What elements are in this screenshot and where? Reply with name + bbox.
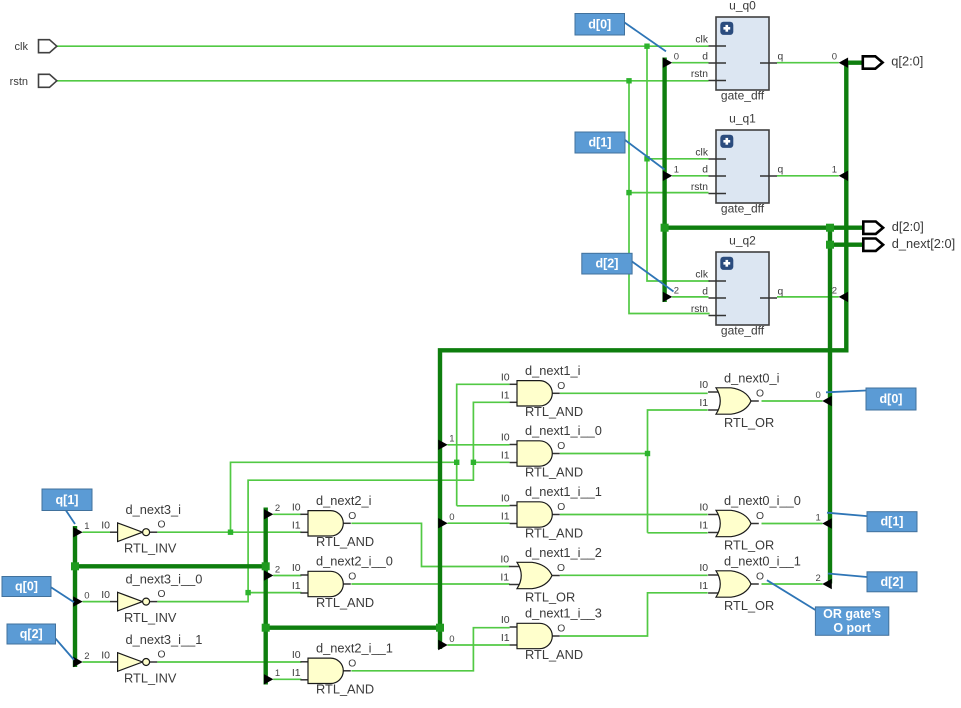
svg-text:d[2]: d[2]	[595, 257, 618, 271]
svg-text:q: q	[778, 165, 784, 176]
svg-text:0: 0	[816, 390, 821, 401]
svg-text:0: 0	[674, 52, 679, 63]
svg-text:O: O	[348, 511, 356, 522]
svg-text:d[0]: d[0]	[880, 392, 903, 406]
svg-text:I1: I1	[501, 511, 510, 523]
svg-text:I0: I0	[699, 562, 708, 574]
svg-text:RTL_AND: RTL_AND	[316, 534, 374, 549]
svg-text:RTL_OR: RTL_OR	[724, 537, 774, 552]
svg-text:RTL_OR: RTL_OR	[525, 589, 575, 604]
svg-text:O: O	[348, 572, 356, 583]
svg-text:gate_dff: gate_dff	[721, 323, 765, 337]
svg-text:d[1]: d[1]	[589, 136, 612, 150]
svg-text:d: d	[702, 52, 708, 63]
svg-text:1: 1	[449, 434, 454, 445]
svg-text:I0: I0	[101, 520, 110, 532]
svg-text:OR gate’s: OR gate’s	[823, 607, 881, 621]
svg-text:I1: I1	[292, 580, 301, 592]
svg-text:I1: I1	[292, 667, 301, 679]
svg-text:I1: I1	[699, 580, 708, 592]
svg-text:d_next0_i__0: d_next0_i__0	[724, 493, 801, 508]
svg-text:rstn: rstn	[691, 304, 708, 315]
svg-text:I1: I1	[699, 520, 708, 532]
svg-text:0: 0	[832, 52, 837, 63]
svg-text:RTL_AND: RTL_AND	[316, 682, 374, 697]
svg-text:d: d	[702, 165, 708, 176]
svg-text:0: 0	[449, 634, 454, 645]
svg-text:rstn: rstn	[691, 69, 708, 80]
svg-text:RTL_AND: RTL_AND	[525, 647, 583, 662]
svg-text:clk: clk	[15, 41, 29, 53]
svg-text:d_next2_i: d_next2_i	[316, 493, 372, 508]
svg-text:RTL_OR: RTL_OR	[724, 598, 774, 613]
svg-text:I0: I0	[292, 501, 301, 513]
svg-text:O: O	[157, 589, 165, 600]
svg-text:d: d	[702, 287, 708, 298]
svg-text:O: O	[348, 658, 356, 669]
svg-text:RTL_AND: RTL_AND	[525, 464, 583, 479]
svg-text:2: 2	[275, 564, 280, 575]
svg-text:I0: I0	[501, 432, 510, 444]
svg-text:O: O	[557, 563, 565, 574]
svg-text:q[0]: q[0]	[15, 580, 38, 594]
svg-text:O: O	[756, 511, 764, 522]
svg-text:0: 0	[84, 590, 89, 601]
svg-text:d_next0_i: d_next0_i	[724, 371, 780, 386]
svg-text:O port: O port	[833, 621, 871, 635]
svg-text:d_next[2:0]: d_next[2:0]	[892, 236, 955, 251]
svg-text:I0: I0	[292, 649, 301, 661]
svg-text:2: 2	[832, 286, 837, 297]
svg-text:RTL_AND: RTL_AND	[525, 525, 583, 540]
svg-text:RTL_AND: RTL_AND	[525, 404, 583, 419]
svg-text:I1: I1	[292, 519, 301, 531]
svg-text:2: 2	[275, 503, 280, 514]
svg-text:I1: I1	[501, 450, 510, 462]
svg-text:d[2:0]: d[2:0]	[892, 219, 924, 234]
svg-text:O: O	[157, 650, 165, 661]
svg-text:clk: clk	[695, 35, 708, 46]
svg-text:rstn: rstn	[691, 182, 708, 193]
svg-text:I0: I0	[101, 589, 110, 601]
svg-text:I0: I0	[101, 650, 110, 662]
svg-text:q[2]: q[2]	[20, 627, 43, 641]
svg-text:O: O	[557, 381, 565, 392]
svg-text:d_next3_i: d_next3_i	[126, 502, 182, 517]
svg-text:d_next1_i__3: d_next1_i__3	[525, 606, 602, 621]
svg-text:d_next1_i__0: d_next1_i__0	[525, 423, 602, 438]
svg-text:O: O	[157, 520, 165, 531]
svg-text:u_q0: u_q0	[729, 0, 756, 13]
svg-text:q[2:0]: q[2:0]	[891, 54, 923, 69]
svg-text:RTL_INV: RTL_INV	[124, 610, 177, 625]
svg-text:I1: I1	[501, 389, 510, 401]
svg-text:d[0]: d[0]	[588, 17, 611, 31]
svg-text:rstn: rstn	[10, 76, 28, 88]
svg-text:0: 0	[449, 512, 454, 523]
svg-text:I0: I0	[292, 562, 301, 574]
svg-text:q: q	[778, 287, 784, 298]
svg-text:clk: clk	[695, 270, 708, 281]
svg-text:1: 1	[275, 668, 280, 679]
svg-text:2: 2	[84, 651, 89, 662]
svg-text:2: 2	[674, 286, 679, 297]
svg-text:O: O	[557, 441, 565, 452]
svg-text:d_next0_i__1: d_next0_i__1	[724, 554, 801, 569]
svg-text:RTL_OR: RTL_OR	[724, 415, 774, 430]
svg-text:clk: clk	[695, 148, 708, 159]
svg-text:u_q2: u_q2	[729, 234, 756, 248]
svg-text:O: O	[557, 502, 565, 513]
svg-text:O: O	[557, 624, 565, 635]
svg-text:I0: I0	[500, 554, 509, 566]
svg-text:RTL_INV: RTL_INV	[124, 541, 177, 556]
svg-text:I0: I0	[501, 371, 510, 383]
svg-text:q: q	[778, 52, 784, 63]
svg-text:O: O	[756, 389, 764, 400]
svg-text:2: 2	[816, 573, 821, 584]
svg-text:I0: I0	[501, 614, 510, 626]
svg-text:gate_dff: gate_dff	[721, 201, 765, 215]
svg-text:d_next2_i__0: d_next2_i__0	[316, 554, 393, 569]
svg-text:I0: I0	[699, 502, 708, 514]
svg-text:1: 1	[674, 165, 679, 176]
svg-text:1: 1	[84, 521, 89, 532]
svg-text:I1: I1	[699, 397, 708, 409]
svg-text:1: 1	[816, 512, 821, 523]
svg-text:d_next2_i__1: d_next2_i__1	[316, 641, 393, 656]
svg-text:d[1]: d[1]	[881, 515, 904, 529]
svg-text:I1: I1	[501, 632, 510, 644]
svg-text:d_next1_i: d_next1_i	[525, 363, 581, 378]
svg-text:I0: I0	[501, 493, 510, 505]
svg-text:1: 1	[832, 165, 837, 176]
svg-text:d_next3_i__0: d_next3_i__0	[126, 572, 203, 587]
svg-text:O: O	[756, 572, 764, 583]
svg-text:d_next1_i__1: d_next1_i__1	[525, 484, 602, 499]
svg-text:gate_dff: gate_dff	[721, 88, 765, 102]
svg-text:d_next1_i__2: d_next1_i__2	[525, 545, 602, 560]
svg-text:d_next3_i__1: d_next3_i__1	[126, 632, 203, 647]
svg-text:RTL_AND: RTL_AND	[316, 595, 374, 610]
svg-text:I1: I1	[500, 572, 509, 584]
svg-text:u_q1: u_q1	[729, 112, 756, 126]
svg-text:I0: I0	[699, 379, 708, 391]
svg-text:RTL_INV: RTL_INV	[124, 671, 177, 686]
svg-text:q[1]: q[1]	[56, 493, 79, 507]
svg-text:d[2]: d[2]	[881, 575, 904, 589]
